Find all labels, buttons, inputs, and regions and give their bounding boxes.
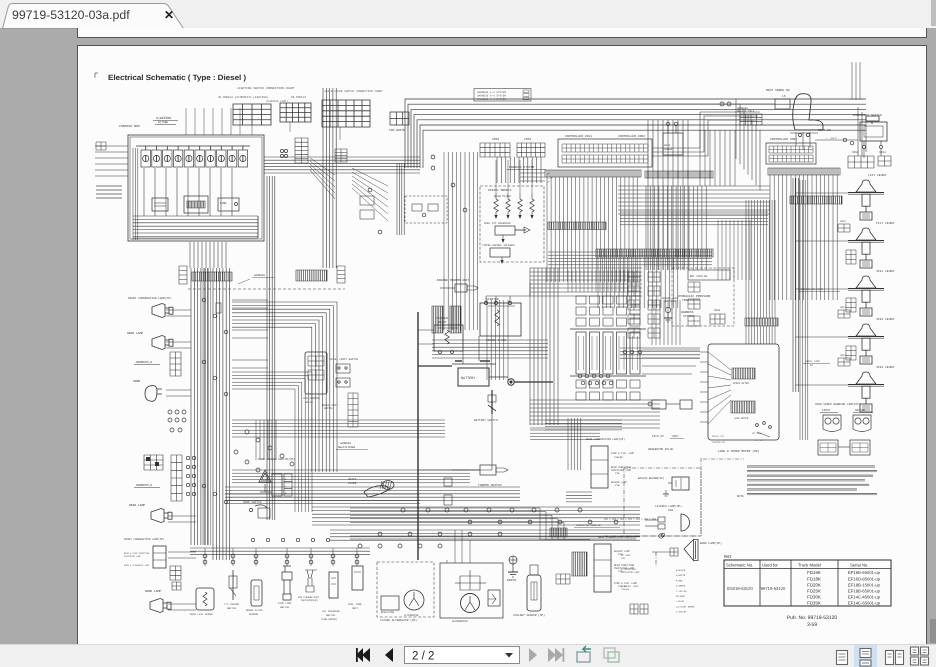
left cluster diag fan <box>352 168 388 186</box>
main junction <box>508 379 514 385</box>
alternator small <box>404 590 424 610</box>
main levl sensor <box>196 588 214 610</box>
right meter drop bundle <box>652 300 680 345</box>
svg-text:CN93: CN93 <box>714 309 721 312</box>
center horizontal bundle <box>618 186 770 214</box>
svg-text:T/C THERMO: T/C THERMO <box>224 603 240 606</box>
brake limit connector strip <box>348 393 358 427</box>
head lamp 2 <box>151 509 168 523</box>
svg-text:HARNESS: HARNESS <box>340 442 351 445</box>
seat drop wires <box>796 132 810 150</box>
svg-text:COOLANT SENSOR (OP): COOLANT SENSOR (OP) <box>513 613 545 617</box>
sensor stems and terminals <box>203 554 207 558</box>
svg-text:HYDRAULIC PRESSURE: HYDRAULIC PRESSURE <box>678 295 711 298</box>
work lamp right <box>684 540 698 561</box>
tc thermo switch <box>232 570 234 600</box>
svg-text:EF18B-65001-up: EF18B-65001-up <box>848 589 881 594</box>
svg-text:FUEL CUT SOLENOID: FUEL CUT SOLENOID <box>484 222 511 225</box>
svg-text:BOT COUN SW: BOT COUN SW <box>690 275 708 278</box>
svg-text:Electrical Schematic ( Type :: Electrical Schematic ( Type : Diesel ) <box>108 73 247 82</box>
turn signal warning triangle <box>259 470 271 482</box>
svg-text:BATTERY: BATTERY <box>461 376 475 381</box>
layout icons <box>837 651 848 665</box>
mid bundle horizontal 2 <box>225 494 420 504</box>
center bundle 3 <box>497 157 541 183</box>
svg-text:SWITCH: SWITCH <box>227 607 237 610</box>
svg-text:DATA: DATA <box>664 144 671 147</box>
svg-text:TILT LEVER: TILT LEVER <box>876 222 894 225</box>
drops to CN51 right <box>857 107 859 156</box>
svg-text:STOP LAMP: STOP LAMP <box>278 602 292 605</box>
svg-text:GENERATOR PULSE: GENERATOR PULSE <box>648 448 673 451</box>
battery switch drop wires <box>491 414 493 470</box>
svg-text:CN12: CN12 <box>840 220 847 223</box>
svg-text:HANDLE/SW CONN.SW: HANDLE/SW CONN.SW <box>576 524 601 527</box>
left lamp stub wires lower <box>168 515 196 517</box>
wire to work lamp right <box>350 536 640 539</box>
svg-text:99719-53120: 99719-53120 <box>761 586 786 591</box>
svg-text:SET UP: SET UP <box>755 439 763 442</box>
svg-text:HARNESS,D: HARNESS,D <box>136 484 152 487</box>
air cleaner dust indicator <box>305 570 317 592</box>
svg-text:HEAD LAMP: HEAD LAMP <box>129 504 145 507</box>
dashed rail <box>188 288 345 290</box>
svg-text:ES019-53120: ES019-53120 <box>727 586 753 591</box>
svg-text:ACCEL LIMIT SWITCH: ACCEL LIMIT SWITCH <box>330 358 358 361</box>
far left text specks <box>96 185 122 187</box>
accel switch B <box>336 378 350 387</box>
lower center bundle B <box>312 507 640 525</box>
engine thermo unit <box>455 284 467 292</box>
svg-text:REGULATOR: REGULATOR <box>381 611 394 614</box>
load and speed meter box <box>708 344 779 440</box>
svg-text:TIMING CONTROL SOLENOID: TIMING CONTROL SOLENOID <box>482 244 516 247</box>
pin strip left B <box>296 270 327 281</box>
svg-text:SWITCH: SWITCH <box>280 606 290 609</box>
rectifier <box>488 590 500 606</box>
verticals right mid <box>718 220 750 280</box>
svg-text:LEVER: LEVER <box>348 482 357 485</box>
brake fluid sensor <box>251 580 262 606</box>
svg-text:EF16B-65001-up: EF16B-65001-up <box>848 570 881 575</box>
lever feed bundle <box>793 178 799 392</box>
svg-text:HORN: HORN <box>133 380 140 383</box>
toolbar <box>0 644 936 667</box>
svg-text:HARNESS 4-4 SYSTEM: HARNESS 4-4 SYSTEM <box>477 95 506 98</box>
svg-text:(OPTIONAL): (OPTIONAL) <box>664 300 679 303</box>
center bundle 4 <box>432 340 548 358</box>
console box outline <box>128 135 264 241</box>
fuel gauge box <box>218 198 239 211</box>
svg-text:LIGHTING SWITCH CONNECTION CHA: LIGHTING SWITCH CONNECTION CHART <box>237 87 295 90</box>
svg-text:ROOM & CLEARANCE LAMP: ROOM & CLEARANCE LAMP <box>124 564 150 567</box>
load meter connector <box>731 401 755 413</box>
connector CN4 <box>335 149 347 162</box>
svg-text:SENSOR: SENSOR <box>249 613 259 616</box>
svg-text:CN63: CN63 <box>524 138 531 141</box>
warning relay second <box>850 440 870 455</box>
svg-text:BT: BT <box>810 364 814 367</box>
svg-text:EARTH: EARTH <box>507 579 516 582</box>
alternator box <box>440 563 503 618</box>
stop lamp switch <box>282 566 292 600</box>
relay cluster lower wires <box>545 420 622 430</box>
rear lamp connector 2 <box>556 574 570 584</box>
left connector strips col <box>628 272 640 282</box>
svg-text:UNIT: UNIT <box>352 607 359 610</box>
engine group bus <box>190 548 370 554</box>
svg-text:CONTROLLER CN51: CONTROLLER CN51 <box>770 138 797 141</box>
svg-text:COUNTER SET: COUNTER SET <box>712 441 726 444</box>
battery switch <box>491 390 493 414</box>
svg-text:GLOW PLUGS: GLOW PLUGS <box>494 195 511 198</box>
rear lamp feed verticals <box>568 418 581 470</box>
svg-text:Schematic No.: Schematic No. <box>726 563 753 568</box>
bottom connector pair <box>630 604 638 614</box>
lighting switch connection chart table <box>233 104 271 125</box>
left lamp stub wires <box>166 309 191 311</box>
svg-text:CN6 WHITE: CN6 WHITE <box>389 129 405 132</box>
svg-text:SPEED METER: SPEED METER <box>733 382 749 385</box>
meter wire fan <box>708 352 731 370</box>
svg-text:(ENG.GROUP): (ENG.GROUP) <box>321 618 338 621</box>
browser tab bar <box>0 0 936 28</box>
pin strip 2 <box>548 222 606 230</box>
svg-text:GR:GRAY: GR:GRAY <box>676 595 686 598</box>
seat <box>793 94 823 130</box>
svg-text:Used for: Used for <box>762 563 778 568</box>
junction circles left trunk <box>245 430 249 434</box>
svg-text:PEDALS SET: PEDALS SET <box>712 435 725 438</box>
svg-text:LIFT LEVER: LIFT LEVER <box>868 174 886 177</box>
svg-text:EF18B-15001-up: EF18B-15001-up <box>848 582 881 587</box>
svg-text:21W/8W: 21W/8W <box>621 588 630 591</box>
head lamp <box>152 336 169 350</box>
wires controller to seat <box>652 112 760 156</box>
earth ground <box>509 556 517 564</box>
meter feed strip <box>745 318 778 326</box>
coolant sensor <box>527 575 541 611</box>
svg-text:SWITCH: SWITCH <box>324 407 333 410</box>
lighting sw relay boxes <box>360 196 374 205</box>
pin strip mid right <box>645 171 713 178</box>
left trunk bundle A <box>191 268 208 545</box>
left trunk bundle C <box>323 88 336 268</box>
svg-text:L: L <box>285 485 287 488</box>
data logger <box>663 133 683 155</box>
svg-text:V:VIOLET: V:VIOLET <box>676 611 687 614</box>
svg-text:HARNESS SYSTEM: HARNESS SYSTEM <box>509 166 534 169</box>
svg-text:EF14C-45001-up: EF14C-45001-up <box>848 595 881 600</box>
svg-text:REAR COMBINATION LAMP(OP): REAR COMBINATION LAMP(OP) <box>598 536 637 539</box>
svg-text:ALTERNATOR: ALTERNATOR <box>452 620 468 623</box>
svg-text:DIESEL 2.5KW: DIESEL 2.5KW <box>486 339 506 342</box>
top tables stubs <box>251 125 253 135</box>
svg-text:CN13: CN13 <box>840 354 847 357</box>
trunk junction circles <box>202 298 206 302</box>
cluster junction circle rows <box>578 374 582 378</box>
svg-text:EMERGENCY SWITCH: EMERGENCY SWITCH <box>853 114 882 117</box>
svg-text:SECOND: SECOND <box>855 409 865 412</box>
svg-text:CN97: CN97 <box>672 435 679 438</box>
right bundles to rear lamps <box>566 492 592 502</box>
console internal wiring <box>133 216 258 236</box>
center trunk bundle extra <box>444 152 478 330</box>
lighting switch connector <box>295 138 308 163</box>
page corner tick <box>94 73 96 78</box>
svg-text:10W: 10W <box>668 509 673 512</box>
front combination lamp 2 body <box>153 546 166 568</box>
svg-text:CONTROLLER CN11: CONTROLLER CN11 <box>565 135 592 138</box>
svg-text:CONSOLE BOX: CONSOLE BOX <box>119 124 140 128</box>
svg-text:CLOSED ALTERNATOR (OP): CLOSED ALTERNATOR (OP) <box>380 618 417 622</box>
svg-text:FB MODELS: FB MODELS <box>291 96 306 99</box>
svg-text:40 MODELS (SCHEMATIC LIGHTING): 40 MODELS (SCHEMATIC LIGHTING) <box>218 95 269 99</box>
svg-text:B)TUBE: B)TUBE <box>158 120 168 124</box>
svg-text:VINYL TAPE: VINYL TAPE <box>805 360 821 363</box>
svg-text:10W: 10W <box>621 557 626 560</box>
svg-text:INDICATOR LAMP: INDICATOR LAMP <box>124 555 142 558</box>
lever column bundles <box>800 180 808 440</box>
center knot verticals low <box>487 300 508 380</box>
svg-text:4X12 LEVER: 4X12 LEVER <box>876 318 894 321</box>
svg-text:MAIN LEVL SENSR: MAIN LEVL SENSR <box>190 613 213 616</box>
vertical connector left <box>179 266 187 284</box>
inline connectors on feed <box>444 478 452 486</box>
pin strip CN51 lower <box>790 196 842 204</box>
console drop bundle <box>190 242 226 268</box>
handle sw connector <box>550 528 567 537</box>
svg-text:CN54: CN54 <box>879 151 886 154</box>
lever feed wire <box>795 240 848 242</box>
svg-text:FD25K: FD25K <box>807 589 821 594</box>
controller wire comb <box>547 177 637 282</box>
svg-text:FD30K: FD30K <box>807 595 821 600</box>
battery <box>458 368 489 386</box>
comb under data logger <box>646 186 706 270</box>
closed alternator dashed box <box>377 562 434 617</box>
svg-text:G:GREEN: G:GREEN <box>676 585 686 588</box>
backup buzzer <box>672 477 689 490</box>
svg-text:4X11 LEVER: 4X11 LEVER <box>876 270 894 273</box>
svg-text:ALTERNATOR: ALTERNATOR <box>404 614 419 617</box>
svg-text:FIRST: FIRST <box>822 409 831 412</box>
lever feed wire <box>795 384 848 386</box>
alternator main <box>461 594 480 613</box>
svg-text:21W/8W: 21W/8W <box>614 456 623 459</box>
svg-text:INDICATOR(OP): INDICATOR(OP) <box>301 599 318 602</box>
relay cluster feed combs <box>568 270 636 292</box>
svg-text:HARNESS: HARNESS <box>681 311 694 314</box>
knot vertical bundle <box>397 163 404 235</box>
svg-text:FD15K: FD15K <box>807 570 821 575</box>
left edge connector <box>96 142 106 150</box>
left trunk dashes <box>203 268 211 545</box>
pin strip 3 <box>596 249 713 257</box>
svg-text:FD18K: FD18K <box>807 576 821 581</box>
controller pin strip <box>545 170 641 177</box>
svg-text:BATTERY SWITCH: BATTERY SWITCH <box>474 419 498 422</box>
svg-text:THERMO SWITCH: THERMO SWITCH <box>478 484 502 487</box>
svg-text:ENGINE THERMO UNIT: ENGINE THERMO UNIT <box>437 279 470 282</box>
svg-text:W:WHITE: W:WHITE <box>676 574 686 577</box>
regulator <box>381 596 399 610</box>
svg-text:FD35K: FD35K <box>807 601 821 606</box>
svg-text:NOTE: NOTE <box>737 495 744 498</box>
tab <box>0 0 220 29</box>
pick up coil <box>652 400 666 409</box>
lever feed wire <box>795 336 848 338</box>
rear combination lamp 2 <box>594 544 611 592</box>
svg-text:INDICATOR LAMP: INDICATOR LAMP <box>621 571 640 574</box>
center vertical bundle <box>648 120 688 270</box>
emergency drops <box>864 149 881 158</box>
licence lamp dashed box <box>624 468 701 536</box>
turn signal drop wires <box>256 420 276 460</box>
warning lamp first <box>823 415 841 432</box>
left trunk fuse <box>216 303 221 313</box>
woven block center <box>548 252 712 265</box>
hatched connector pair <box>432 306 443 333</box>
meter feed bundle <box>746 200 775 318</box>
svg-text:LS: LS <box>782 95 786 98</box>
lever connector stacks <box>846 250 856 264</box>
left bottom stub circles <box>251 538 254 541</box>
warning relay first <box>818 440 838 455</box>
svg-text:LF: LF <box>547 181 551 184</box>
bottom bundle junctions <box>468 520 472 524</box>
svg-text:A)WIRING: A)WIRING <box>156 116 171 120</box>
horn switch <box>249 508 252 511</box>
svg-text:OVER SPEED WARNING LAMP(OP): OVER SPEED WARNING LAMP(OP) <box>815 402 861 406</box>
licence lamp <box>681 514 690 531</box>
horn <box>145 386 162 402</box>
main top harness bundle <box>405 99 866 168</box>
svg-text:LICENCE LAMP(OP): LICENCE LAMP(OP) <box>655 504 682 508</box>
turn signal switch body <box>272 474 282 496</box>
battery to relay wires <box>418 330 479 364</box>
knot dashed box <box>405 196 447 223</box>
junction row <box>401 508 405 512</box>
thermo switch <box>480 465 496 475</box>
svg-text:EF16D-85001-up: EF16D-85001-up <box>848 576 881 581</box>
cluster bus bars <box>570 328 646 330</box>
terminal circles <box>280 149 283 152</box>
upper mid verticals <box>700 130 735 186</box>
svg-text:RELAYS CN13: RELAYS CN13 <box>737 110 755 113</box>
mid rows lower <box>232 470 470 483</box>
svg-text:LOAD METER: LOAD METER <box>734 417 749 420</box>
wire to emergency switch <box>815 139 858 141</box>
left trunk bundle B <box>213 268 230 560</box>
svg-text:21W: 21W <box>615 484 620 487</box>
svg-text:HEAD LAMP: HEAD LAMP <box>127 332 143 335</box>
svg-text:FUEL TANK: FUEL TANK <box>348 603 362 606</box>
work lamp <box>150 599 167 613</box>
alternator connector cross <box>460 576 480 590</box>
bundle rows right of controller <box>620 212 768 225</box>
page 1 bottom sliver <box>77 28 927 38</box>
svg-text:EF14C-65001-up: EF14C-65001-up <box>848 601 881 606</box>
accel switch A <box>336 364 350 373</box>
svg-text:(MARKING LAMP): (MARKING LAMP) <box>266 100 288 103</box>
svg-text:HARNESS: HARNESS <box>254 274 265 277</box>
heavy feed wire <box>417 312 419 560</box>
lamp chart table <box>280 103 311 122</box>
svg-text:FD20K: FD20K <box>807 582 821 587</box>
oil pressure switch <box>329 572 338 598</box>
speed meter connector <box>732 368 755 379</box>
svg-text:STOP & TAIL LAMP: STOP & TAIL LAMP <box>611 452 635 455</box>
svg-text:Truck Model: Truck Model <box>798 563 821 568</box>
CN51 pin strip <box>768 168 840 175</box>
svg-text:3-59: 3-59 <box>807 622 817 628</box>
flow meter box <box>152 198 168 211</box>
svg-text:SEAT SW: SEAT SW <box>818 129 831 132</box>
svg-text:P: P <box>285 492 287 495</box>
left elbow nest <box>232 302 337 472</box>
cluster nest left <box>530 268 558 425</box>
meter left wires <box>700 352 708 422</box>
svg-text:SET DOWN: SET DOWN <box>752 432 762 435</box>
top right corner verticals <box>852 62 860 100</box>
svg-text:HARNESS,D: HARNESS,D <box>136 361 152 364</box>
svg-text:CN14: CN14 <box>840 306 847 309</box>
harness D2 connector stack <box>171 455 182 501</box>
connector grid block <box>144 455 163 470</box>
gauge cluster row <box>141 150 150 167</box>
svg-text:HARNESS,SOL.CN41: HARNESS,SOL.CN41 <box>800 288 824 291</box>
connector column CN55 <box>688 282 700 292</box>
svg-text:Pub. No. 99719-53120: Pub. No. 99719-53120 <box>787 615 838 621</box>
svg-text:STARTER: STARTER <box>486 298 499 301</box>
lever switch connection chart table <box>322 100 370 127</box>
harness D connector <box>170 352 181 376</box>
console harness bundle <box>264 157 420 173</box>
model serial table <box>724 560 891 606</box>
ground 200a symbol <box>665 307 670 312</box>
lower center bundle A <box>225 487 520 501</box>
svg-text:FRONT COMBINATION LAMP(OP): FRONT COMBINATION LAMP(OP) <box>124 538 165 541</box>
comb drops 2 <box>598 257 678 308</box>
left horizontal rungs <box>232 299 268 301</box>
diesel models dashed box <box>480 186 544 262</box>
svg-text:21W: 21W <box>615 472 620 475</box>
starter relay <box>434 325 463 351</box>
glow plug feed comb <box>496 160 532 193</box>
rear lamp connector <box>572 552 587 576</box>
lever feed wire <box>795 192 848 194</box>
svg-text:WORK LAMP(OP): WORK LAMP(OP) <box>700 541 722 545</box>
meter switches <box>756 424 759 427</box>
connector CN6 WHITE <box>390 112 409 125</box>
console left column <box>133 148 138 240</box>
alternator feed wires <box>447 530 470 563</box>
svg-text:R:RED: R:RED <box>676 579 683 582</box>
left elbow second nest <box>232 372 312 512</box>
svg-text:TURN SIGNAL SWITCH(OP): TURN SIGNAL SWITCH(OP) <box>258 457 295 461</box>
svg-text:Lg:LIGHT GREEN: Lg:LIGHT GREEN <box>676 605 695 608</box>
svg-text:B:BLACK: B:BLACK <box>676 569 686 572</box>
wire fan <box>310 158 335 175</box>
svg-text:BRAKE FLUID: BRAKE FLUID <box>246 609 263 612</box>
mid bundle to meter <box>620 348 700 358</box>
relay diode column cluster <box>576 296 586 304</box>
junction circle cluster <box>168 410 172 414</box>
top bundle right drops <box>735 99 737 159</box>
svg-text:+ -24LV: + -24LV <box>826 137 837 140</box>
starter top wires <box>486 282 530 303</box>
